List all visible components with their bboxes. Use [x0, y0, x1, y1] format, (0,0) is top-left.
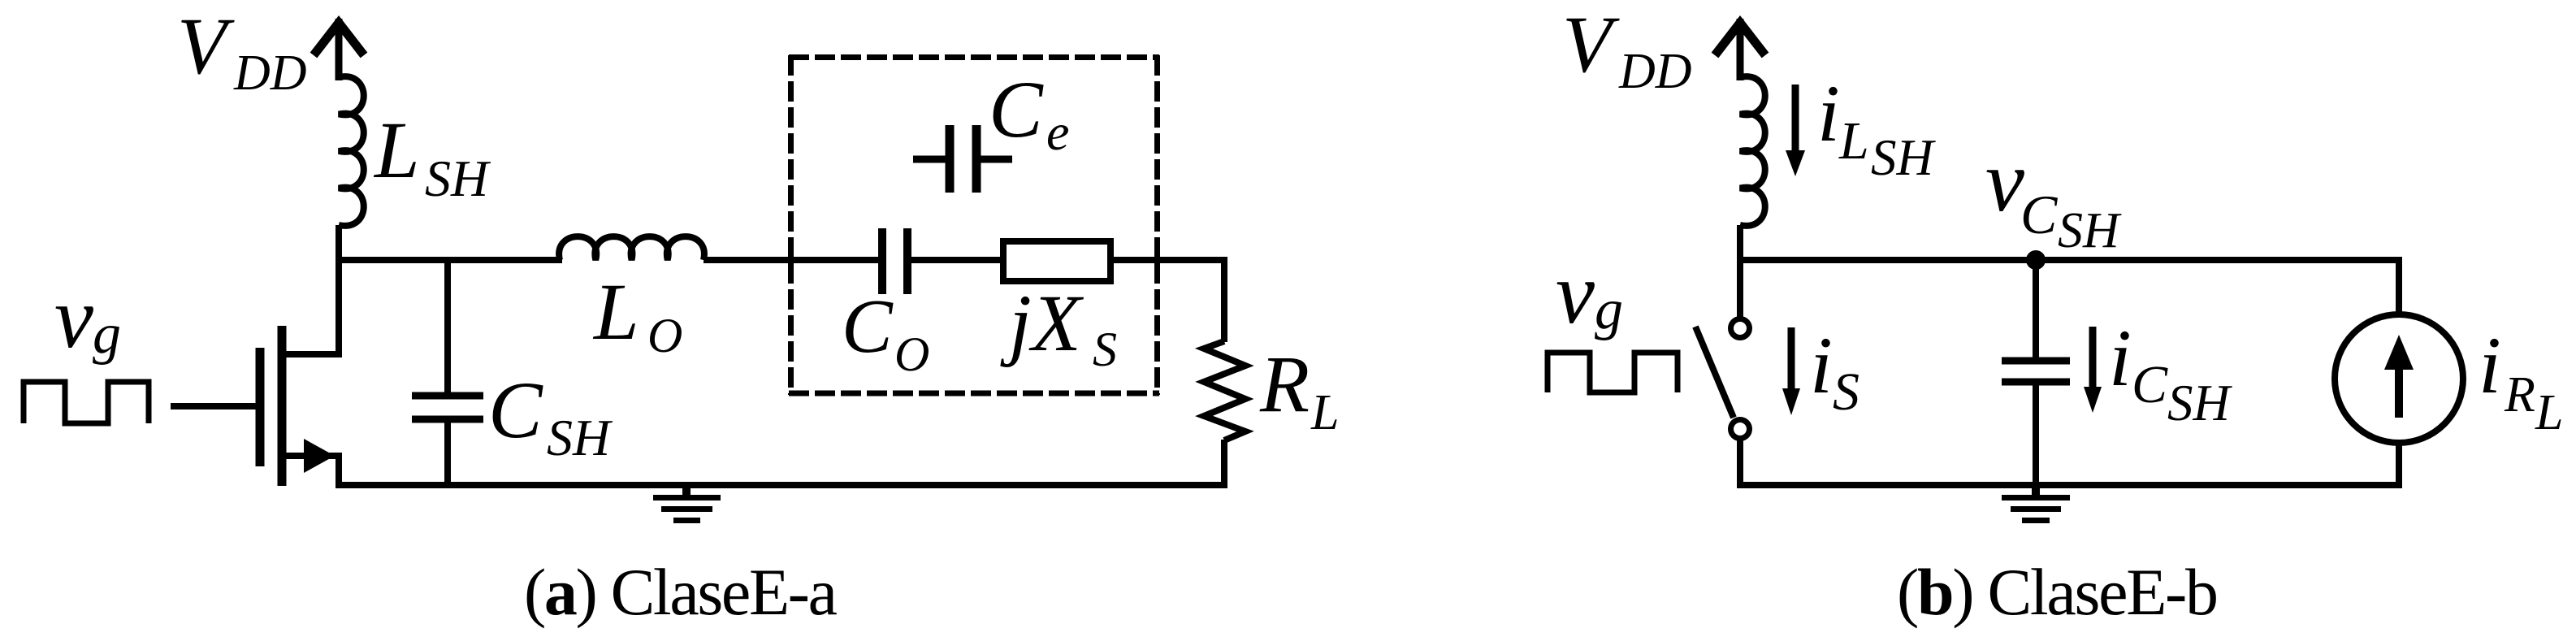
label vg (a): [54, 270, 121, 366]
transistor Q1 gate bar: [256, 348, 265, 466]
label R_L: [1259, 339, 1339, 440]
label L_SH: [373, 105, 491, 207]
switch top contact: [1731, 319, 1750, 338]
svg-text:V: V: [1562, 0, 1620, 89]
svg-text:i: i: [2479, 320, 2501, 410]
power arrow VDD (a): [314, 19, 364, 80]
current arrow i_LSH: [1786, 84, 1805, 176]
svg-text:jX: jX: [1000, 278, 1085, 368]
ground (a): [653, 486, 721, 521]
ground (b): [2002, 486, 2070, 521]
source vg square-wave symbol (a): [24, 382, 149, 423]
wire: drain lead: [284, 351, 342, 357]
svg-text:S: S: [1833, 362, 1859, 422]
inductor L_O: [559, 236, 704, 260]
inductor L_SH (b): [1740, 76, 1765, 226]
svg-text:V: V: [177, 1, 235, 91]
svg-text:SH: SH: [425, 149, 491, 207]
wire: C_O to jX_S box: [911, 257, 1003, 263]
wire: source down to bottom rail: [336, 453, 342, 488]
label V_DD: [177, 1, 307, 101]
svg-text:L: L: [1310, 385, 1339, 440]
svg-text:DD: DD: [1618, 44, 1692, 99]
svg-text:C: C: [989, 64, 1044, 154]
wire: bottom rail (b): [1737, 482, 2402, 488]
label i_CSH: [2109, 313, 2233, 431]
svg-text:DD: DD: [233, 45, 307, 101]
svg-text:g: g: [1595, 279, 1623, 341]
svg-text:C: C: [842, 284, 894, 369]
svg-text:S: S: [1093, 323, 1117, 376]
svg-text:O: O: [894, 327, 929, 381]
svg-text:v: v: [1556, 245, 1595, 342]
label vg (b): [1556, 245, 1623, 342]
caption (b): [1897, 555, 2219, 629]
switch bottom contact: [1731, 420, 1750, 439]
svg-text:(a) ClaseE-a: (a) ClaseE-a: [524, 555, 838, 629]
capacitor C_SH (b): [2002, 361, 2070, 382]
wire: current source to bottom rail: [2396, 443, 2402, 488]
wire: bottom rail (a): [336, 482, 1227, 488]
svg-text:L: L: [2535, 385, 2563, 440]
label C_SH: [488, 365, 613, 466]
capacitor C_SH (b) top lead: [2033, 260, 2039, 358]
svg-text:i: i: [2109, 313, 2132, 403]
capacitor C_SH: [412, 396, 483, 419]
wire: top node rail (b): [1740, 257, 2399, 263]
current arrow i_CSH: [2084, 327, 2102, 413]
label jX_S: [1000, 278, 1117, 376]
label C_e: [989, 64, 1069, 161]
svg-text:SH: SH: [2167, 375, 2233, 431]
transistor Q1 source arrow: [304, 439, 335, 473]
wire: top rail left segment: [336, 257, 562, 263]
wire: top rail middle segment: [704, 257, 878, 263]
wire: source lead: [284, 453, 339, 459]
current source i_RL circle: [2335, 314, 2463, 443]
svg-text:e: e: [1046, 103, 1069, 161]
wire: R_L top lead: [1221, 257, 1227, 342]
wire: jX_S to R_L corner: [1110, 257, 1227, 263]
current source arrow: [2384, 335, 2414, 418]
source vg square-wave symbol (b): [1548, 353, 1678, 392]
svg-text:(b) ClaseE-b: (b) ClaseE-b: [1897, 555, 2219, 629]
wire: switch bottom to rail: [1737, 440, 1743, 488]
capacitor C_e: [913, 125, 1012, 193]
svg-text:SH: SH: [1871, 129, 1937, 186]
svg-text:C: C: [488, 365, 543, 455]
svg-text:v: v: [54, 270, 93, 366]
power arrow VDD (b): [1715, 19, 1765, 80]
svg-text:R: R: [2504, 367, 2535, 422]
node dot v_CSH: [2026, 250, 2046, 270]
resistor R_L: [1204, 341, 1245, 440]
svg-text:i: i: [1810, 320, 1833, 410]
label i_S: [1810, 320, 1859, 422]
svg-text:O: O: [647, 309, 682, 362]
wire: node rail to current source: [2396, 257, 2402, 318]
inductor L_SH: [339, 76, 364, 226]
capacitor C_SH top lead: [444, 260, 451, 393]
switch lever: [1695, 327, 1734, 418]
svg-text:SH: SH: [2058, 203, 2122, 258]
label i_RL: [2479, 320, 2563, 440]
svg-text:R: R: [1259, 339, 1310, 429]
wire: R_L bottom lead: [1221, 440, 1227, 488]
svg-text:L: L: [1838, 111, 1869, 171]
current arrow i_S: [1782, 327, 1800, 415]
svg-text:SH: SH: [547, 409, 613, 466]
label C_O: [842, 284, 929, 381]
capacitor C_SH (b) bottom lead: [2033, 384, 2039, 485]
impedance box jX_S: [1003, 241, 1110, 281]
label v_CSH: [1985, 133, 2122, 258]
label V_DD (b): [1562, 0, 1692, 99]
label L_O: [592, 266, 682, 362]
wire: node to switch top contact: [1737, 257, 1743, 318]
transistor Q1 channel bar: [278, 326, 287, 486]
wire: L_SH bottom through top rail to drain lead: [336, 225, 342, 354]
capacitor C_O: [882, 228, 907, 294]
label i_LSH: [1817, 68, 1937, 186]
wire: L_SH (b) to node line: [1737, 225, 1743, 263]
svg-text:L: L: [592, 266, 639, 357]
svg-text:C: C: [2020, 184, 2058, 245]
svg-text:C: C: [2132, 355, 2168, 414]
wire: gate lead: [171, 403, 256, 409]
svg-text:v: v: [1985, 133, 2024, 230]
caption (a): [524, 555, 838, 629]
svg-text:g: g: [93, 303, 121, 366]
svg-text:i: i: [1817, 68, 1840, 158]
svg-text:L: L: [373, 105, 420, 195]
dashed equivalence box: [789, 55, 1159, 395]
capacitor C_SH bottom lead: [444, 422, 451, 485]
